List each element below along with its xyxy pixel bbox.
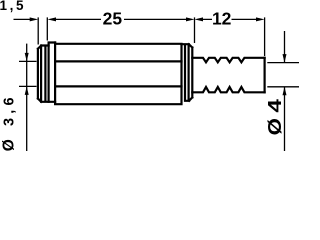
svg-text:1,5: 1,5 bbox=[0, 0, 26, 13]
svg-text:25: 25 bbox=[103, 8, 123, 28]
arrow left at 194.5 bbox=[195, 17, 204, 21]
boot right edge bbox=[264, 58, 266, 93]
dimension line 25 bbox=[55, 18, 187, 20]
svg-text:Ø: Ø bbox=[0, 139, 17, 151]
svg-text:12: 12 bbox=[212, 8, 232, 28]
arrow right at 194.5 bbox=[186, 17, 195, 21]
dimension line 1,5 leader bbox=[14, 18, 31, 20]
dimension line 12 bbox=[202, 18, 257, 20]
dimension extension lines bbox=[38, 17, 264, 56]
left cap ring with chamfers bbox=[38, 46, 55, 102]
svg-text:Ø: Ø bbox=[265, 118, 285, 135]
right ring (cone) bbox=[182, 44, 193, 101]
main body outline bbox=[55, 43, 181, 105]
dia 3,6 dimension line with outside arrows bbox=[26, 44, 28, 151]
dia 4 dimension line with outside arrows bbox=[284, 31, 286, 151]
strain relief boot top edge with corrugation dips bbox=[192, 58, 264, 63]
dia 4 extension lines bbox=[267, 63, 299, 87]
arrow left at 54.5 bbox=[48, 17, 57, 21]
dia 3,6 extension lines bbox=[19, 61, 37, 86]
left flange (1,5 collar) bbox=[49, 43, 56, 102]
svg-text:4: 4 bbox=[265, 99, 285, 113]
arrow right at 264.6 bbox=[256, 17, 265, 21]
strain relief boot bottom edge with corrugation bumps bbox=[192, 87, 264, 92]
body inner lines (contact tube silhouette) bbox=[55, 61, 181, 86]
arrow right at x=48 bbox=[30, 17, 39, 21]
svg-text:3,6: 3,6 bbox=[1, 93, 17, 126]
